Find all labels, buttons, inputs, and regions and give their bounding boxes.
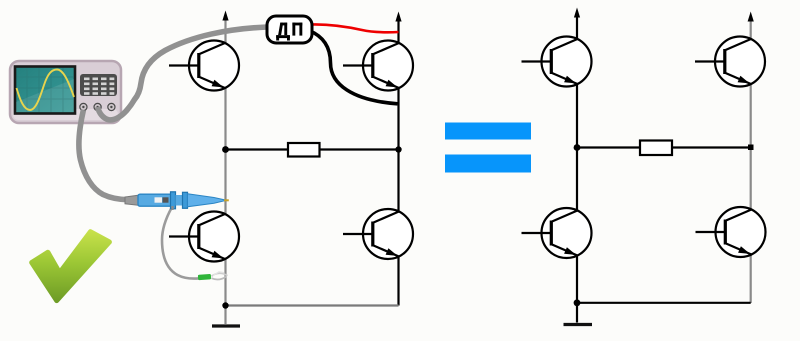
transistor Q1 (top-left) [169,41,239,91]
transistor Q3 (bottom-left) [169,212,239,262]
resistor R1 [288,143,320,157]
node C (bottom-left junction) [222,302,228,308]
equals sign bottom bar [445,155,531,173]
arrow top of right rail [395,12,401,22]
wire: left rail (gray) [224,18,226,324]
wire: red lead from DP box to right rail [311,24,399,32]
wire: black lead from DP box to right rail emitter [309,31,398,104]
green checkmark [32,232,110,301]
transistor Q5 (top-left) [522,37,592,87]
wire: right rail (gray) [750,19,752,303]
ground clip (green) [198,272,228,280]
transistor Q2 (top-right) [343,41,413,91]
equals sign top bar [445,123,531,140]
transistor Q8 (bottom-right) [696,207,766,257]
oscilloscope icon [10,61,121,123]
node A (left-middle junction) [222,146,229,153]
wire: left rail (black) [576,15,578,323]
wire: probe ground lead (thin gray) [162,208,199,279]
resistor R2 [640,141,672,156]
arrow top of left rail [574,8,580,18]
wire: right rail (black) [397,19,399,306]
wire: middle horizontal (black) [577,146,751,148]
ground (left circuit) [212,324,240,327]
node F (bottom-left junction) [574,299,581,306]
DP box (differential probe label) [267,16,312,43]
transistor Q4 (bottom-right) [343,209,413,259]
node D (left-middle junction) [574,144,581,151]
cable: oscilloscope to DP box (thick gray) [98,27,268,120]
wire: middle horizontal (black) [226,148,399,150]
arrow top of left rail [222,11,228,21]
node E (right-middle junction) [748,145,754,151]
oscilloscope probe (blue) [125,192,229,210]
cable: oscilloscope to probe (thick gray) [79,110,131,200]
node B (right-middle junction) [395,146,401,152]
transistor Q6 (top-right) [695,37,765,87]
wire: bottom horizontal (gray) [226,304,399,306]
ground (right circuit) [564,323,593,326]
arrow top of right rail [748,12,754,22]
wire: bottom horizontal (black) [577,302,751,304]
transistor Q7 (bottom-left) [522,208,592,258]
